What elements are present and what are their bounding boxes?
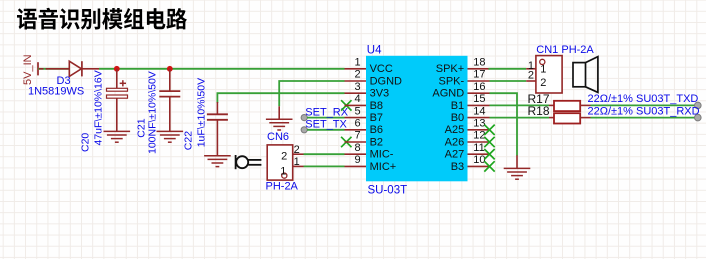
no-connect pin 11 (484, 149, 494, 159)
svg-text:SPK-: SPK- (439, 75, 465, 87)
svg-text:3V3: 3V3 (370, 88, 390, 100)
ground for AGND (516, 155, 518, 168)
no-connect pin 10 (484, 161, 494, 171)
svg-text:13: 13 (473, 118, 485, 130)
ground for C22 (204, 155, 231, 157)
U4 right pin 12 (A26) (468, 141, 490, 143)
svg-text:C20: C20 (80, 133, 92, 152)
svg-text:A25: A25 (445, 124, 465, 136)
port pin 5V_IN tick (37, 62, 39, 75)
U4 left pin 1 (VCC) (345, 68, 367, 70)
svg-text:1: 1 (540, 64, 546, 76)
no-connect pin7 (341, 137, 351, 147)
resistor R18 (549, 117, 554, 119)
svg-text:9: 9 (354, 154, 360, 166)
svg-text:47uF\±10%\16V: 47uF\±10%\16V (93, 70, 105, 145)
U4 left pin 6 (B6) (345, 129, 367, 131)
junction at C21 (167, 66, 173, 72)
svg-text:1N5819WS: 1N5819WS (28, 86, 84, 98)
svg-text:B7: B7 (370, 112, 383, 124)
svg-text:2: 2 (528, 69, 534, 81)
wire MIC- to CN6 (304, 153, 345, 155)
capacitor C22 (216, 102, 218, 114)
svg-text:5V_IN: 5V_IN (22, 54, 34, 85)
svg-text:12: 12 (473, 130, 485, 142)
microphone symbol (235, 155, 237, 169)
svg-text:B0: B0 (451, 112, 464, 124)
U4 right pin 18 (SPK+) (468, 68, 490, 70)
svg-text:CN6: CN6 (267, 131, 289, 143)
svg-text:SU-03T: SU-03T (368, 184, 408, 196)
U4 right pin 17 (SPK-) (468, 80, 490, 82)
svg-text:B3: B3 (451, 161, 464, 173)
svg-text:17: 17 (473, 69, 485, 81)
svg-text:100NF\±10%\50V: 100NF\±10%\50V (147, 71, 159, 154)
svg-text:1uF\±10%\50V: 1uF\±10%\50V (196, 78, 208, 147)
op-amp U4 body (366, 56, 468, 182)
U4 right pin 14 (B0) (468, 117, 490, 119)
ground for C21 (157, 130, 184, 132)
svg-text:2: 2 (540, 77, 546, 89)
svg-text:14: 14 (473, 105, 485, 117)
U4 right pin 16 (AGND) (468, 92, 490, 94)
svg-text:B2: B2 (370, 136, 383, 148)
U4 right pin 10 (B3) (468, 165, 490, 167)
wire SPK+ to CN1 (489, 68, 527, 70)
svg-text:1: 1 (354, 57, 360, 69)
no-connect pin 13 (484, 125, 494, 135)
svg-text:SPK+: SPK+ (436, 63, 464, 75)
svg-text:CN1 PH-2A: CN1 PH-2A (536, 44, 594, 56)
svg-text:5: 5 (354, 105, 360, 117)
svg-text:2: 2 (281, 151, 287, 163)
U4 left pin 3 (3V3) (345, 92, 367, 94)
wire 5V_IN to D3 anode (38, 68, 69, 70)
svg-text:B6: B6 (370, 124, 383, 136)
wire AGND (490, 93, 518, 155)
svg-text:6: 6 (354, 118, 360, 130)
svg-text:AGND: AGND (432, 88, 464, 100)
junction at C20 (114, 66, 120, 72)
net flag SET_RX dot (301, 115, 307, 121)
svg-text:4: 4 (354, 93, 360, 105)
svg-text:B1: B1 (451, 100, 464, 112)
wire B0 to R18 (490, 117, 550, 119)
svg-text:10: 10 (473, 154, 485, 166)
svg-text:1: 1 (294, 156, 300, 168)
capacitor C21 (169, 69, 171, 91)
wire SET_RX (307, 117, 345, 119)
net flag SU03T_RXD dot (695, 114, 702, 121)
wire R18 to SU03T_RXD (591, 117, 697, 119)
svg-text:18: 18 (473, 57, 485, 69)
svg-text:B8: B8 (370, 100, 383, 112)
U4 left pin 5 (B7) (345, 117, 367, 119)
wire 5V rail (99, 68, 345, 70)
svg-text:MIC+: MIC+ (370, 161, 397, 173)
connector CN6 (267, 145, 293, 180)
no-connect pin4 (341, 100, 351, 110)
wire R17 to SU03T_TXD (591, 104, 697, 106)
U4 left pin 2 (DGND) (345, 80, 367, 82)
svg-text:1: 1 (280, 166, 286, 178)
diode D3 (39, 68, 44, 70)
net flag SET_TX dot (301, 127, 307, 133)
svg-text:22Ω/±1% SU03T_TXD: 22Ω/±1% SU03T_TXD (588, 93, 699, 105)
net flag SU03T_TXD dot (695, 102, 702, 109)
svg-text:C22: C22 (183, 131, 195, 150)
ground for C20 (104, 130, 131, 132)
no-connect pin 12 (484, 137, 494, 147)
U4 left pin 7 (B2) (345, 141, 367, 143)
U4 left pin 4 (B8) (345, 104, 367, 106)
connector CN1 (536, 56, 562, 93)
U4 right pin 15 (B1) (468, 104, 490, 106)
svg-text:7: 7 (354, 130, 360, 142)
svg-text:A26: A26 (445, 136, 465, 148)
wire 3V3 (217, 93, 344, 103)
svg-text:16: 16 (473, 81, 485, 93)
svg-text:PH-2A: PH-2A (266, 181, 299, 193)
svg-text:U4: U4 (367, 45, 382, 57)
resistor R17 (549, 104, 554, 106)
svg-text:3: 3 (354, 81, 360, 93)
svg-text:A27: A27 (445, 149, 465, 161)
svg-text:DGND: DGND (370, 75, 402, 87)
svg-text:22Ω/±1% SU03T_RXD: 22Ω/±1% SU03T_RXD (588, 105, 700, 117)
wire DGND (279, 81, 344, 106)
svg-text:15: 15 (473, 93, 485, 105)
svg-text:MIC-: MIC- (370, 149, 394, 161)
svg-text:11: 11 (473, 142, 484, 154)
speaker symbol (573, 63, 586, 87)
capacitor C20 (116, 69, 118, 89)
svg-text:2: 2 (294, 144, 300, 156)
svg-text:8: 8 (354, 142, 360, 154)
U4 left pin 8 (MIC-) (345, 153, 367, 155)
U4 left pin 9 (MIC+) (345, 165, 367, 167)
U4 right pin 13 (A25) (468, 129, 490, 131)
wire SET_TX (307, 129, 345, 131)
ground for DGND (278, 106, 280, 119)
title text 语音识别模组电路 (17, 8, 187, 30)
svg-text:SET_TX: SET_TX (305, 119, 347, 131)
wire B1 to R17 (490, 104, 550, 106)
wire MIC+ to CN6 (304, 165, 345, 167)
svg-text:R18: R18 (528, 104, 550, 118)
wire SPK- to CN1 (490, 80, 527, 82)
U4 right pin 11 (A27) (468, 153, 490, 155)
svg-text:2: 2 (354, 69, 360, 81)
svg-text:VCC: VCC (370, 63, 393, 75)
